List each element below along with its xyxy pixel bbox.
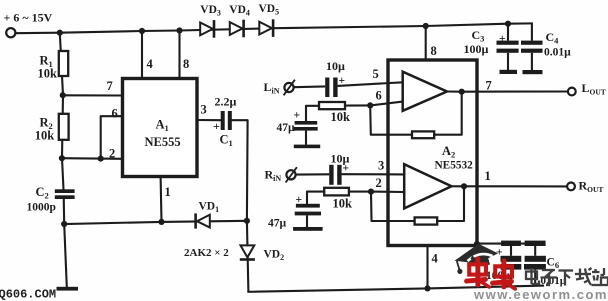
svg-text:6: 6 bbox=[112, 107, 118, 121]
node Rout terminal bbox=[567, 183, 575, 191]
wire pin6 into box bbox=[370, 102, 403, 106]
node Lout terminal bbox=[568, 88, 576, 96]
capacitor C5 bbox=[501, 241, 521, 246]
op-amp/timer U1 NE555 box bbox=[123, 79, 198, 177]
wire pin7 to divider bbox=[63, 94, 123, 96]
node U2b output junction bbox=[461, 183, 467, 189]
op-amp U2b triangle bbox=[404, 164, 451, 208]
capacitor C2 plates bbox=[55, 189, 75, 193]
diode VD1 bbox=[197, 215, 210, 228]
node Lin terminal bbox=[284, 83, 293, 92]
svg-text:3: 3 bbox=[201, 103, 207, 117]
node pin1 junction bbox=[158, 219, 164, 225]
wire feedback upper right bbox=[434, 92, 462, 135]
resistor R2 bbox=[59, 114, 69, 140]
wire pin2 into box bbox=[371, 191, 404, 193]
svg-text:LiN: LiN bbox=[264, 80, 280, 96]
svg-text:+: + bbox=[213, 119, 220, 133]
wire 10k to pin2 bbox=[349, 191, 371, 193]
wire top supply rail bbox=[15, 23, 532, 33]
capacitor 47u right bbox=[296, 204, 320, 208]
svg-text:10µ: 10µ bbox=[331, 152, 350, 166]
wire pin3 lead bbox=[197, 119, 222, 121]
watermark graduation-cap logo bbox=[455, 244, 499, 274]
svg-text:4: 4 bbox=[147, 57, 154, 71]
svg-text:A2: A2 bbox=[442, 144, 455, 160]
wire pin2 run bbox=[62, 157, 123, 160]
node supply-R1 junction bbox=[57, 30, 63, 36]
wire Lin to C 10u bbox=[294, 85, 326, 88]
wire pin1 to Rout bbox=[464, 185, 567, 187]
wire 10k to pin6 bbox=[345, 104, 370, 106]
wire bottom ground rail bbox=[248, 286, 543, 292]
wire pin8 drop bbox=[425, 26, 427, 60]
node +V supply terminal bbox=[6, 28, 15, 37]
wire 10k to 47u elbow bbox=[306, 106, 319, 121]
svg-text:+: + bbox=[296, 194, 303, 206]
svg-text:C6: C6 bbox=[547, 257, 560, 271]
svg-text:7: 7 bbox=[486, 79, 492, 93]
svg-text:6: 6 bbox=[376, 89, 382, 103]
svg-text:7: 7 bbox=[107, 79, 113, 93]
svg-text:5: 5 bbox=[373, 67, 379, 81]
capacitor C6 bbox=[525, 241, 546, 246]
svg-text:+: + bbox=[294, 110, 301, 122]
ground bar 47u right bbox=[293, 227, 323, 231]
capacitor 47u left bbox=[295, 121, 318, 125]
svg-text:0.01µ: 0.01µ bbox=[544, 47, 571, 59]
svg-text:RiN: RiN bbox=[265, 168, 282, 184]
svg-text:+: + bbox=[496, 247, 503, 259]
capacitor C1 plates bbox=[221, 111, 225, 130]
wire C10u to pin3 bbox=[342, 173, 405, 175]
svg-text:10k: 10k bbox=[38, 67, 58, 81]
node C3 junction bbox=[505, 21, 511, 27]
svg-text:1: 1 bbox=[165, 185, 171, 199]
svg-text:+ 6 ~ 15V: + 6 ~ 15V bbox=[4, 11, 53, 25]
watermark text dianzi-xiazai-zhan bbox=[526, 268, 539, 284]
svg-text:+: + bbox=[499, 33, 506, 45]
watermark red character 2 bbox=[493, 261, 516, 289]
wire C2 lower lead bbox=[63, 203, 65, 225]
svg-text:NE5532: NE5532 bbox=[435, 160, 474, 172]
wire C1 to diode node bbox=[232, 120, 248, 221]
diode VD4 bbox=[230, 22, 243, 35]
op-amp U2a triangle bbox=[403, 72, 447, 111]
resistor feedback lower bbox=[415, 217, 438, 224]
ground bar C3 bbox=[500, 70, 518, 74]
svg-text:1: 1 bbox=[485, 169, 491, 183]
node C2-ground-VD1 junction bbox=[61, 221, 67, 227]
svg-text:2.2µ: 2.2µ bbox=[215, 95, 237, 109]
wire U2b output bbox=[452, 185, 465, 187]
resistor 10k left-ch bbox=[319, 102, 345, 109]
svg-text:3: 3 bbox=[378, 159, 384, 173]
wire pin4-8 drop (555 pin4) bbox=[141, 31, 143, 79]
wire pin4 drop bbox=[426, 245, 428, 289]
svg-text:8: 8 bbox=[431, 44, 437, 58]
svg-text:8: 8 bbox=[183, 57, 189, 71]
svg-text:2: 2 bbox=[376, 176, 382, 190]
svg-text:2: 2 bbox=[109, 147, 115, 161]
capacitor C3 bbox=[507, 24, 509, 41]
svg-text:VD5: VD5 bbox=[259, 3, 280, 17]
node rail-pin8 junction bbox=[176, 27, 182, 33]
svg-text:www.eeworm.com: www.eeworm.com bbox=[473, 287, 608, 301]
watermark red character 1 bbox=[467, 259, 490, 287]
diode VD5 bbox=[259, 22, 272, 35]
wire pin7 to Lout bbox=[462, 90, 568, 92]
wire feedback upper bbox=[370, 105, 412, 134]
wire C10u to pin5 bbox=[338, 82, 403, 86]
svg-text:LOUT: LOUT bbox=[582, 81, 606, 97]
wire feedback lower bbox=[371, 192, 415, 221]
svg-text:100µ: 100µ bbox=[464, 42, 489, 56]
svg-text:VD1: VD1 bbox=[199, 201, 220, 215]
wire decoupling feed bbox=[477, 243, 536, 245]
resistor feedback upper bbox=[412, 131, 434, 138]
svg-text:ROUT: ROUT bbox=[579, 179, 604, 195]
wire Rin to C 10u bbox=[296, 173, 330, 175]
wire pin6 elbow bbox=[101, 116, 123, 158]
wire 555 pin8 drop bbox=[178, 31, 180, 79]
svg-text:10k: 10k bbox=[331, 110, 351, 124]
svg-text:NE555: NE555 bbox=[145, 135, 181, 149]
svg-text:10µ: 10µ bbox=[326, 59, 345, 73]
node Rin terminal bbox=[286, 170, 295, 179]
svg-text:4: 4 bbox=[432, 252, 439, 266]
svg-text:2AK2 × 2: 2AK2 × 2 bbox=[184, 247, 229, 259]
wire ground drop bbox=[64, 224, 67, 287]
node decoupling junction bbox=[474, 241, 480, 247]
svg-text:C2: C2 bbox=[36, 185, 49, 201]
svg-text:Q606.COM: Q606.COM bbox=[0, 288, 56, 301]
wire U2a output bbox=[447, 90, 462, 92]
node VD1-VD2-C1 node bbox=[244, 218, 250, 224]
node pin2 junction A2 bbox=[368, 189, 374, 195]
wire 10k to 47u elbow right bbox=[307, 192, 324, 204]
wire feedback lower right bbox=[437, 186, 464, 221]
node pin6 junction A2 bbox=[367, 102, 373, 108]
svg-text:47µ: 47µ bbox=[277, 122, 296, 134]
diode VD2 bbox=[241, 245, 255, 257]
resistor R1 bbox=[59, 51, 68, 76]
svg-text:VD4: VD4 bbox=[229, 4, 250, 18]
svg-text:10k: 10k bbox=[35, 129, 55, 143]
capacitor C4 bbox=[531, 23, 533, 40]
wire pin1 drop bbox=[160, 177, 163, 222]
svg-text:VD3: VD3 bbox=[200, 4, 221, 18]
wire VD1 rail bbox=[64, 221, 247, 224]
wire VD2 drop bbox=[247, 221, 249, 292]
op-amp U2 NE5532 box bbox=[388, 60, 477, 246]
node U2a output junction bbox=[459, 89, 465, 95]
wire left bias column bbox=[60, 33, 64, 190]
node pin8 junction bbox=[423, 23, 429, 29]
svg-text:10k: 10k bbox=[333, 197, 353, 211]
capacitor 10u right plates bbox=[329, 165, 333, 185]
node pin4-ground junction bbox=[424, 285, 430, 291]
ground bar left bbox=[57, 287, 79, 291]
diode VD3 bbox=[200, 23, 213, 36]
capacitor 10u left plates bbox=[325, 78, 329, 98]
node R2-C2 junction bbox=[59, 155, 65, 161]
ground bar 47u left bbox=[294, 145, 320, 149]
node rail-pin4 junction bbox=[139, 28, 145, 34]
node pin6-pin2 junction bbox=[98, 156, 104, 162]
node R1-R2 junction bbox=[60, 92, 66, 98]
resistor 10k right-ch bbox=[324, 188, 349, 196]
svg-text:C1: C1 bbox=[220, 133, 233, 149]
svg-text:C4: C4 bbox=[546, 30, 560, 46]
svg-text:47µ: 47µ bbox=[268, 218, 287, 230]
svg-text:1000p: 1000p bbox=[27, 202, 56, 214]
ground bar C4 bbox=[523, 70, 543, 74]
svg-text:VD2: VD2 bbox=[264, 249, 285, 263]
